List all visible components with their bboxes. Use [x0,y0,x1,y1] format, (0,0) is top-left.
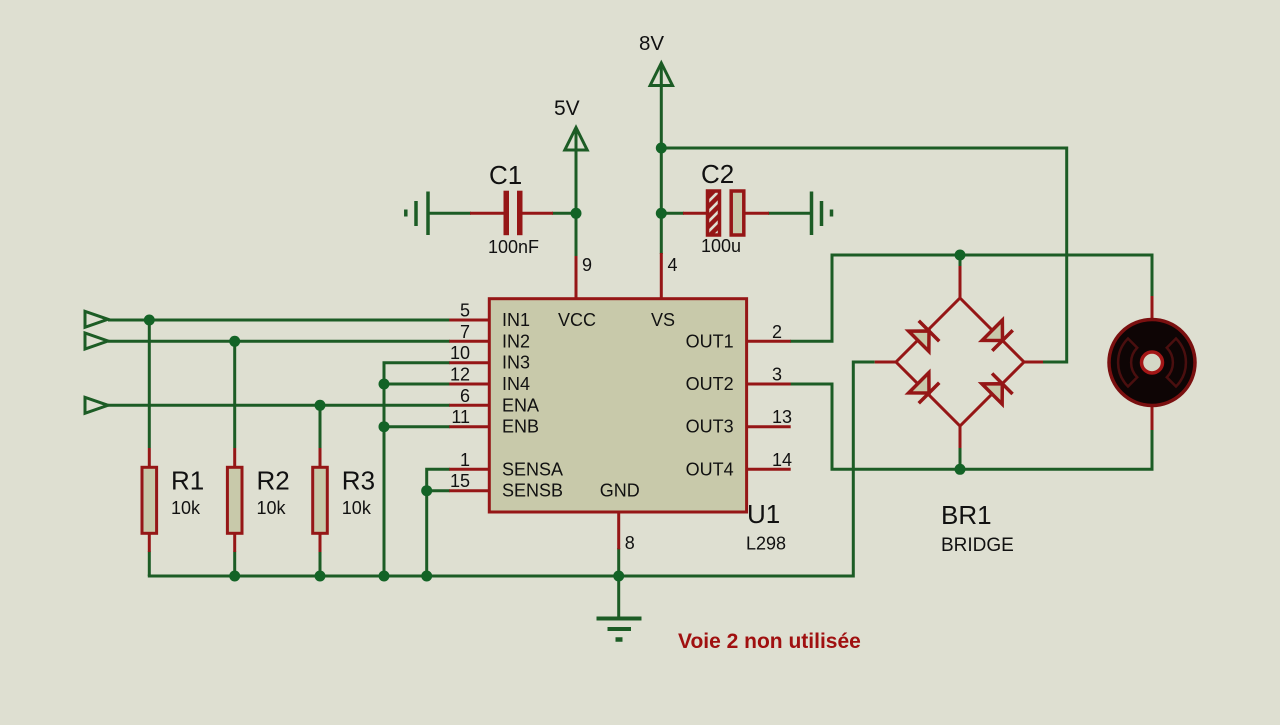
svg-text:100u: 100u [701,236,741,256]
svg-text:U1: U1 [747,499,780,529]
svg-text:4: 4 [668,255,678,275]
svg-text:IN2: IN2 [502,331,530,351]
wire 8V to bridge right [661,148,1066,362]
pin 1 SENSA [449,450,563,480]
svg-text:100nF: 100nF [488,237,539,257]
svg-text:IN3: IN3 [502,353,530,373]
wire R2 bottom [233,552,236,577]
svg-text:8: 8 [625,533,635,553]
IC U1 L298 [489,299,786,554]
wire R1 bottom [148,552,151,577]
svg-text:IN1: IN1 [502,310,530,330]
pin 3 OUT2 [686,365,791,395]
wire IN4 (pin 12) [384,383,450,386]
wire OUT2 to bridge bottom and motor bottom [790,384,1152,469]
node 8V/C2 [656,208,667,219]
svg-text:R3: R3 [342,466,375,496]
pin 7 IN2 [449,322,530,352]
wire GND pin to ground symbol [617,548,620,617]
svg-text:IN4: IN4 [502,374,530,394]
wire C1 left to ground bar [428,212,471,215]
wire R3 top drop [319,405,322,448]
resistor R3 [313,448,375,552]
svg-text:2: 2 [772,322,782,342]
wire OUT1 to bridge top and motor top [790,255,1152,341]
svg-text:C1: C1 [489,160,522,190]
capacitor C1 [470,160,553,257]
pin 10 IN3 [449,343,530,373]
svg-text:10k: 10k [171,498,201,518]
svg-text:ENB: ENB [502,417,539,437]
node ENB bus [379,421,390,432]
node GND/rail [613,571,624,582]
wire IN2 net (input 2 to pin 7) [108,340,450,343]
svg-text:OUT2: OUT2 [686,374,734,394]
resistor R2 [227,448,289,552]
wire IN3 bus (pin 10) [384,363,450,576]
power terminal 5V [565,128,587,151]
power terminal 8V [650,63,672,86]
svg-text:OUT1: OUT1 [686,331,734,351]
input terminal arrow 3 [85,397,108,413]
svg-text:6: 6 [460,386,470,406]
pin 6 ENA [449,386,539,416]
pin 9 VCC [558,255,596,330]
node sens/rail [421,571,432,582]
svg-text:R1: R1 [171,466,204,496]
wire 5V drop to VCC [575,129,578,257]
svg-text:GND: GND [600,481,640,501]
svg-text:9: 9 [582,255,592,275]
wire C2 left [661,212,684,215]
node IN4 bus [379,379,390,390]
diode D-TR of BR1 [982,320,1013,351]
node bridge top [955,250,966,261]
svg-text:10k: 10k [342,498,372,518]
svg-text:5: 5 [460,301,470,321]
svg-text:8V: 8V [639,32,664,55]
capacitor C2 (electrolytic) [683,159,769,256]
wire SENSA bus (pin 1) [427,469,450,576]
node IN1/R1 [144,315,155,326]
node SENSB bus [421,485,432,496]
wire SENSB (pin 15) [427,489,450,492]
svg-text:11: 11 [451,407,470,427]
svg-text:BR1: BR1 [941,500,992,530]
node 5V/C1 [571,208,582,219]
svg-text:1: 1 [460,450,470,470]
svg-text:14: 14 [772,450,792,470]
diode D-BL of BR1 [908,372,939,403]
svg-text:12: 12 [450,365,470,385]
wire R2 top drop [233,341,236,448]
wire ENA net (input 3 to pin 6) [108,404,450,407]
svg-text:10: 10 [450,343,470,363]
wire IN1 net (input 1 to pin 5) [108,319,450,322]
ground terminal right of C2 [812,192,832,236]
input terminal arrow 2 [85,333,108,349]
diode D-BR of BR1 [982,373,1013,404]
svg-text:5V: 5V [554,97,580,120]
svg-text:13: 13 [772,407,792,427]
svg-text:ENA: ENA [502,395,539,415]
wire ground rail [148,362,875,576]
pin 14 OUT4 [686,450,792,480]
node bridge bottom [955,464,966,475]
wire C2 right to ground bar [768,212,810,215]
node bus/rail [379,571,390,582]
wire R3 bottom [319,552,322,577]
svg-text:VCC: VCC [558,310,596,330]
wire bridge top stub to node [959,255,962,267]
svg-text:15: 15 [450,471,470,491]
svg-text:7: 7 [460,322,470,342]
pin 15 SENSB [449,471,563,501]
svg-text:L298: L298 [746,534,786,554]
svg-text:Voie 2 non utilisée: Voie 2 non utilisée [678,630,861,653]
wire R1 top drop [148,320,151,448]
svg-text:OUT3: OUT3 [686,417,734,437]
svg-text:OUT4: OUT4 [686,459,734,479]
svg-text:SENSA: SENSA [502,459,563,479]
node R3/rail [315,571,326,582]
svg-text:10k: 10k [257,498,287,518]
wire 8V drop to VS [660,65,663,255]
wire C1 right to 5V node [552,212,578,215]
wire ENB (pin 11) [384,425,450,428]
pin 13 OUT3 [686,407,792,437]
svg-text:BRIDGE: BRIDGE [941,535,1014,556]
ground terminal left of C1 [406,192,428,236]
svg-text:3: 3 [772,365,782,385]
ground symbol below GND pin [597,619,642,640]
node IN2/R2 [229,336,240,347]
resistor R1 [142,448,204,552]
pin 12 IN4 [449,365,530,395]
motor [1109,296,1195,430]
pin 2 OUT1 [686,322,791,352]
diode D-TL of BR1 [908,321,939,352]
wire bridge bottom stub to node [959,447,962,469]
svg-text:C2: C2 [701,159,734,189]
pin 4 VS [651,253,678,330]
node ENA/R3 [315,400,326,411]
bridge rectifier BR1 [875,266,1043,556]
pin 5 IN1 [449,301,530,331]
node R2/rail [229,571,240,582]
svg-text:SENSB: SENSB [502,481,563,501]
pin 8 GND [600,481,640,553]
pin 11 ENB [449,407,539,437]
svg-text:R2: R2 [257,466,290,496]
svg-text:VS: VS [651,310,675,330]
node 8V top [656,143,667,154]
input terminal arrow 1 [85,311,108,327]
